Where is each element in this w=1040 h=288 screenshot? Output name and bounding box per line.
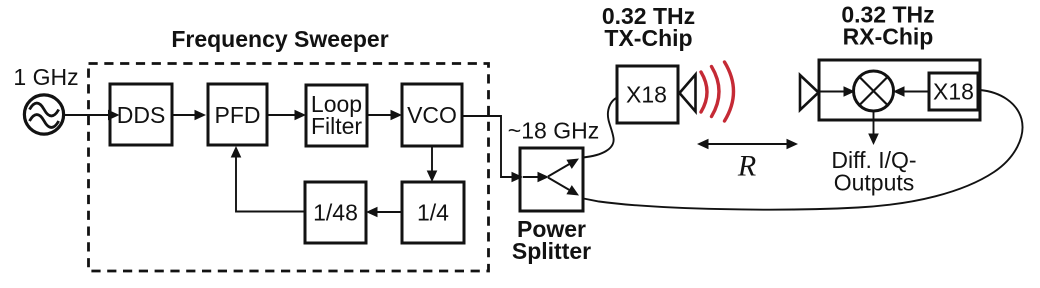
wire Loop Filter to VCO [367,110,402,121]
block RX chip [819,60,980,120]
range arrow R [697,139,798,150]
TX antenna [680,75,696,112]
svg-text:R: R [737,150,756,183]
svg-text:1 GHz: 1 GHz [13,64,78,90]
wire source to DDS [64,110,120,121]
title 0.32 THz TX-Chip [602,3,695,51]
label Power Splitter [512,216,591,264]
wire PFD to Loop Filter [267,110,306,121]
wire DDS to PFD [172,110,206,121]
block PFD [208,84,267,145]
svg-text:X18: X18 [933,79,974,105]
wire RX antenna to mixer [819,86,855,97]
block TX chip X18 [617,66,678,123]
wire VCO down to divider 1/4 [427,146,438,182]
block power splitter [520,148,583,211]
mixer [854,71,894,111]
svg-text:RX-Chip: RX-Chip [843,24,934,50]
block divider 1/48 [305,182,366,243]
block divider 1/4 [402,182,464,243]
block DDS [110,84,172,145]
RX antenna [800,75,819,110]
svg-text:1/48: 1/48 [313,200,358,226]
wire splitter to TX chip [583,98,617,158]
radiated waves [701,62,734,121]
block VCO [402,84,462,146]
wire VCO to power splitter [462,116,523,182]
title 0.32 THz RX-Chip [841,2,934,50]
wire X18 to mixer [893,86,929,97]
svg-text:Filter: Filter [311,113,362,139]
block Loop Filter [306,85,367,146]
wire RX chip back to splitter [584,90,1023,210]
svg-text:X18: X18 [626,82,667,108]
oscillator source 1 GHz [24,95,63,134]
block RX X18 [929,73,978,110]
feedback wire 1/48 to PFD [231,146,305,212]
svg-text:~18 GHz: ~18 GHz [508,118,599,144]
svg-text:VCO: VCO [407,102,457,128]
svg-text:1/4: 1/4 [417,200,449,226]
svg-text:Outputs: Outputs [834,170,915,196]
wire mixer to IQ outputs [868,111,879,145]
dashed box frequency sweeper [89,64,489,272]
svg-text:Frequency Sweeper: Frequency Sweeper [171,26,388,52]
svg-text:PFD: PFD [215,102,261,128]
svg-text:TX-Chip: TX-Chip [604,25,692,51]
label Diff. I/Q- Outputs [831,147,916,196]
splitter internal Y junction [523,159,579,196]
wire 1/4 to 1/48 [366,207,402,218]
svg-text:Splitter: Splitter [512,238,591,264]
svg-text:DDS: DDS [117,102,166,128]
